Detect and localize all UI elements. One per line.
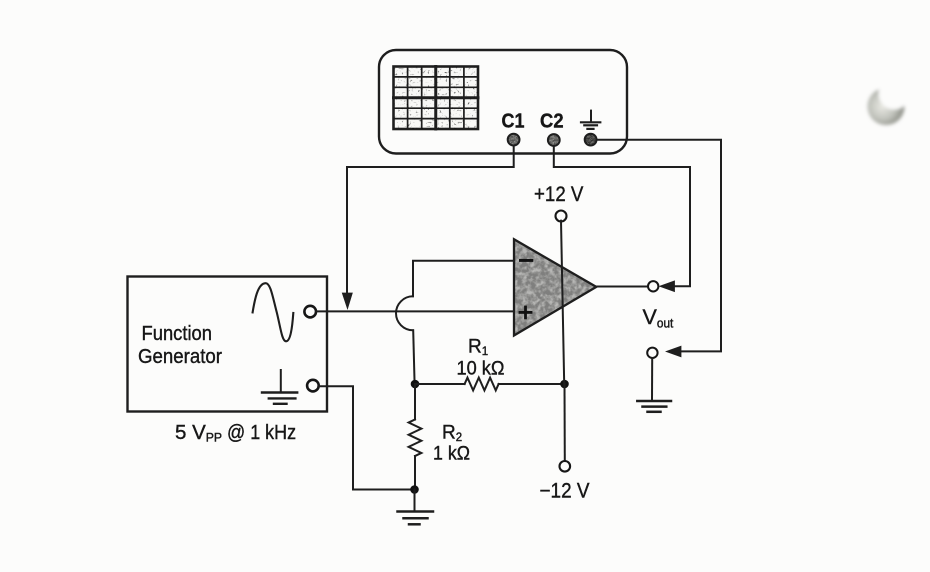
function generator output terminal <box>304 306 316 318</box>
sine wave symbol <box>253 283 294 341</box>
wire FG ground terminal to node B <box>319 386 411 489</box>
ground reference terminal <box>647 348 657 358</box>
function generator ground terminal <box>307 380 319 392</box>
terminal C2 <box>546 132 562 148</box>
svg-text:Function: Function <box>142 322 213 345</box>
svg-text:R1: R1 <box>468 337 488 359</box>
ground symbol main <box>398 512 434 525</box>
svg-text:C1: C1 <box>502 111 525 133</box>
resistor R1 <box>415 378 565 391</box>
-12 V terminal <box>560 461 571 472</box>
node C junction <box>560 380 569 389</box>
svg-text:−12 V: −12 V <box>540 479 590 502</box>
probe arrowhead C1 <box>342 293 352 309</box>
svg-text:C2: C2 <box>540 111 564 133</box>
function generator ground symbol <box>262 370 297 404</box>
node B junction <box>410 485 419 494</box>
svg-text:1 kΩ: 1 kΩ <box>433 443 470 465</box>
svg-text:Generator: Generator <box>138 345 222 368</box>
svg-text:+12 V: +12 V <box>534 183 584 206</box>
svg-text:5 VPP @ 1 kHz: 5 VPP @ 1 kHz <box>175 421 296 445</box>
oscilloscope graticule <box>388 60 484 135</box>
op-amp U1 <box>505 230 605 345</box>
node A junction <box>411 380 420 389</box>
+12 V terminal <box>556 211 567 222</box>
probe arrowhead C2 <box>660 281 675 292</box>
wire op-amp output <box>596 286 648 288</box>
wire reference terminal to ground <box>651 358 653 400</box>
oscilloscope ground terminal <box>583 132 599 148</box>
wire positive supply <box>561 221 564 384</box>
wire C1 to probe point <box>347 146 514 293</box>
terminal C1 <box>506 132 522 148</box>
oscilloscope ground symbol <box>581 111 600 129</box>
svg-text:10 kΩ: 10 kΩ <box>457 357 505 379</box>
oscilloscope body <box>379 50 627 154</box>
wire inverting input <box>413 261 513 297</box>
ground symbol reference <box>637 401 671 412</box>
wire C2 to Vout <box>554 147 690 287</box>
function generator box <box>128 277 328 412</box>
wire negative supply <box>564 384 566 461</box>
svg-text:Vout: Vout <box>643 305 674 330</box>
wire node B to main ground <box>414 490 416 512</box>
label Function Generator <box>138 322 222 368</box>
svg-text:R2: R2 <box>442 423 462 445</box>
probe arrowhead ground <box>666 346 681 357</box>
Vout terminal <box>648 281 658 291</box>
wire hop to node A <box>413 330 414 384</box>
wire hop over signal wire <box>396 296 413 330</box>
wire FG output to op-amp noninverting input <box>316 310 513 312</box>
resistor R2 <box>409 384 422 490</box>
wire scope ground to reference terminal <box>597 140 721 352</box>
